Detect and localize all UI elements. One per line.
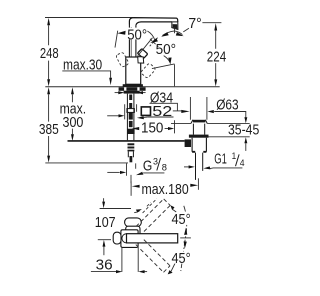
bar centerline datum: [98, 239, 111, 241]
plan: lever swing dashes + arrow: [143, 199, 157, 213]
45 degrees upper: [170, 205, 174, 210]
dashed spout position lower: [136, 238, 170, 272]
7-degree arcs at aerator: [162, 31, 174, 36]
svg-text:385: 385: [39, 122, 59, 138]
handle-path cross marks: [150, 38, 159, 47]
dimension 385: [48, 94, 50, 156]
svg-text:Ø63: Ø63: [216, 97, 238, 113]
angle ray right: [138, 38, 153, 56]
7-degree label and leader: [183, 28, 189, 32]
bottom reference line (supply end datum): [45, 162, 128, 164]
column: [129, 25, 136, 58]
arc arrows at bar end: [184, 228, 187, 235]
svg-text:224: 224: [207, 50, 226, 66]
deck / counter line: [45, 86, 219, 88]
bar end tick: [180, 237, 191, 239]
dashed handle position right: [140, 63, 156, 79]
svg-text:G: G: [143, 158, 152, 174]
dashed handle position left: [116, 52, 130, 68]
dimension max.180: [130, 181, 132, 196]
spout-tip extension line: [174, 29, 176, 134]
dimension 224: [215, 31, 217, 80]
svg-text:8: 8: [162, 163, 167, 174]
45 degrees lower: [168, 270, 173, 274]
plan: lever capsule: [125, 218, 142, 227]
swivel arc: [181, 206, 187, 271]
dimension max.300: [71, 94, 73, 134]
dimension 248: [48, 25, 50, 79]
chained leader to drain extension: [173, 110, 182, 112]
deck bottom line (drain): [209, 136, 250, 138]
svg-text:1: 1: [232, 151, 237, 162]
svg-text:300: 300: [63, 115, 84, 131]
outlet datum line: [202, 22, 221, 24]
svg-text:36: 36: [96, 257, 113, 273]
50-degree arc arrow (upper): [117, 31, 125, 35]
svg-text:7°: 7°: [188, 16, 201, 32]
drain body: [192, 138, 206, 152]
svg-text:45°: 45°: [172, 251, 191, 267]
plan: spout bar: [127, 234, 178, 243]
svg-text:50°: 50°: [156, 42, 177, 58]
drain neck: [193, 124, 204, 135]
dimension 107: [103, 198, 105, 202]
leader to pop-up pipe / max180 tie: [130, 175, 132, 183]
dimension Ø34 arrows: [115, 92, 119, 94]
dimension 36: [122, 248, 138, 272]
svg-text:G1: G1: [214, 152, 227, 168]
locknut: [189, 135, 209, 138]
svg-text:50°: 50°: [127, 27, 147, 43]
svg-text:35-45: 35-45: [228, 123, 259, 139]
plan: cartridge square: [126, 226, 140, 237]
dimension Ø63: [207, 110, 213, 113]
drain flange: [191, 120, 207, 124]
svg-text:150: 150: [141, 120, 163, 136]
dimension G3/8: [127, 163, 136, 175]
supply hose: [68, 140, 185, 142]
spout body: [129, 18, 177, 26]
shank tube: [127, 94, 133, 141]
svg-text:4: 4: [240, 158, 245, 169]
back datum line: [100, 208, 131, 210]
plan: side knob: [113, 232, 121, 244]
drain extension lines: [190, 97, 207, 120]
svg-text:45°: 45°: [172, 212, 191, 228]
mounting hardware under deck: [119, 87, 146, 91]
50-degree boundary diagonal: [152, 64, 175, 69]
svg-text:248: 248: [40, 46, 59, 62]
base plate: [123, 84, 143, 87]
aerator tip: [172, 22, 178, 30]
dashed spout position upper: [136, 199, 170, 233]
deck top line (drain): [171, 123, 250, 125]
body block: [126, 57, 141, 84]
threaded supply end: [128, 143, 135, 145]
dimension G1 1/4: [184, 166, 189, 168]
svg-text:107: 107: [95, 215, 116, 231]
plan: base square: [121, 230, 138, 248]
svg-text:max.180: max.180: [142, 182, 189, 198]
hose connector block: [185, 139, 191, 147]
top reference line (spout height datum): [45, 17, 133, 19]
angle ray left: [115, 31, 118, 48]
dimension square52: [125, 104, 137, 119]
dimension 150: [132, 127, 140, 130]
svg-text:3: 3: [153, 157, 158, 168]
handle lever (solid, raised): [138, 49, 148, 58]
tailpipe: [196, 153, 203, 180]
